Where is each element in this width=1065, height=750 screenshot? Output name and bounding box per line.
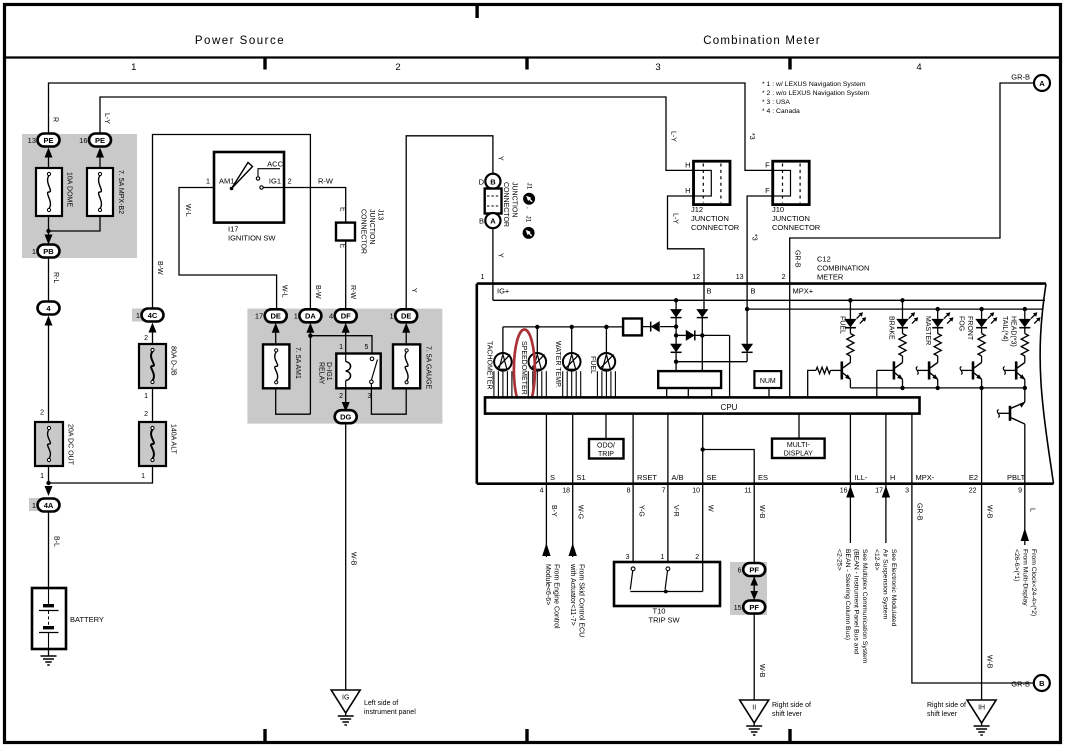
svg-text:2: 2 [695,554,699,561]
svg-text:F: F [765,186,770,195]
svg-text:shift lever: shift lever [772,711,803,718]
svg-text:GR-B: GR-B [794,250,801,268]
svg-text:L-Y: L-Y [670,131,677,142]
svg-text:* 4 : Canada: * 4 : Canada [762,108,800,115]
svg-text:12: 12 [692,274,700,281]
svg-text:9: 9 [1018,488,1022,495]
svg-text:S: S [550,473,555,482]
svg-text:TRIP SW: TRIP SW [649,616,681,625]
svg-text:From Skid Control ECU: From Skid Control ECU [578,564,585,637]
svg-text:<12-8>: <12-8> [873,549,880,571]
svg-text:DA: DA [305,312,316,321]
svg-text:4: 4 [540,488,544,495]
svg-text:Y-G: Y-G [637,505,644,517]
svg-text:SPEEDOMETER: SPEEDOMETER [520,341,527,395]
svg-text:W-B: W-B [758,664,765,678]
svg-text:II: II [752,705,756,712]
svg-text:HEAD(*3): HEAD(*3) [1010,316,1017,347]
svg-text:W-L: W-L [280,285,287,298]
svg-text:B-W: B-W [314,285,321,299]
svg-text:H: H [685,186,690,195]
svg-text:CONNECTOR: CONNECTOR [691,223,740,232]
svg-text:W-B: W-B [350,552,357,566]
svg-text:A: A [1039,79,1045,88]
svg-text:JUNCTION: JUNCTION [368,209,375,244]
svg-text:2: 2 [782,274,786,281]
svg-text:1: 1 [136,311,140,320]
svg-text:PF: PF [749,565,759,574]
svg-text:Y: Y [497,156,504,161]
svg-text:1: 1 [144,393,148,400]
svg-text:IH: IH [978,705,985,712]
svg-text:Right side of: Right side of [927,702,966,709]
svg-text:COMBINATION: COMBINATION [817,264,869,273]
svg-text:ES: ES [758,473,768,482]
svg-text:*3: *3 [748,133,755,140]
svg-text:GR-B: GR-B [1011,73,1030,82]
svg-text:DISPLAY: DISPLAY [784,451,813,458]
svg-text:FRONT: FRONT [966,316,973,341]
svg-text:<26-6>(*1): <26-6>(*1) [1013,549,1020,582]
svg-text:1: 1 [32,501,36,510]
svg-text:W-B: W-B [758,505,765,519]
svg-text:B: B [479,217,484,226]
svg-text:1: 1 [339,344,343,351]
svg-text:H: H [890,473,895,482]
svg-text:E: E [339,244,346,249]
svg-text:with Actuator<11-7>: with Actuator<11-7> [569,563,576,626]
svg-text:W: W [706,505,713,512]
svg-text:From Multi-Display: From Multi-Display [1021,549,1028,606]
svg-text:B-Y: B-Y [550,505,557,517]
svg-text:BRAKE: BRAKE [888,316,895,340]
svg-text:B: B [751,287,756,296]
svg-text:R: R [52,117,59,122]
svg-text:2: 2 [40,410,44,417]
svg-text:*3: *3 [750,234,757,241]
svg-text:ACC: ACC [267,160,283,169]
svg-text:IGNITION SW: IGNITION SW [228,234,276,243]
svg-text:TAIL(*4): TAIL(*4) [1001,316,1008,342]
svg-text:1: 1 [390,312,394,321]
svg-text:1: 1 [294,312,298,321]
svg-text:1: 1 [660,554,664,561]
svg-text:W-B: W-B [985,505,992,519]
svg-text:J13: J13 [377,209,384,220]
svg-text:3: 3 [655,62,660,73]
svg-text:PE: PE [43,136,53,145]
svg-text:C12: C12 [817,255,831,264]
svg-text:7. 5A GAUGE: 7. 5A GAUGE [425,346,432,390]
svg-text:JUNCTION: JUNCTION [511,182,518,217]
svg-text:* 2 : w/o LEXUS Navigation Sys: * 2 : w/o LEXUS Navigation System [762,90,870,97]
svg-text:FUEL: FUEL [839,316,846,334]
svg-text:R-W: R-W [318,177,334,186]
svg-text:* 1 : w/ LEXUS Navigation Syst: * 1 : w/ LEXUS Navigation System [762,81,866,88]
svg-text:B: B [707,287,712,296]
svg-text:DE: DE [270,312,280,321]
svg-text:RSET: RSET [637,473,657,482]
svg-text:Y: Y [497,253,504,258]
svg-text:Right side of: Right side of [772,702,811,709]
svg-text:See Multiplex Communication Sy: See Multiplex Communication System [861,549,868,664]
svg-text:4: 4 [916,62,921,73]
svg-text:W-G: W-G [576,505,583,519]
svg-text:JUNCTION: JUNCTION [691,214,729,223]
svg-text:MULTI-: MULTI- [787,442,810,449]
svg-text:16: 16 [79,136,87,145]
svg-text:H: H [685,161,690,170]
svg-text:SE: SE [707,473,717,482]
svg-text:IG+: IG+ [497,287,510,296]
svg-text:V-R: V-R [672,505,679,517]
svg-text:4A: 4A [44,501,54,510]
svg-text:Left side of: Left side of [364,700,398,707]
svg-text:1: 1 [32,247,36,256]
svg-text:5: 5 [365,344,369,351]
svg-text:FUEL: FUEL [589,356,596,374]
svg-text:METER: METER [817,273,844,282]
svg-text:Power Source: Power Source [195,35,285,47]
svg-text:F: F [765,161,770,170]
svg-text:PE: PE [95,136,105,145]
svg-text:1: 1 [206,177,210,186]
svg-text:MPX-: MPX- [916,473,935,482]
svg-text:AM1: AM1 [219,177,234,186]
svg-text:GR-B: GR-B [1011,680,1030,689]
svg-text:2: 2 [144,411,148,418]
svg-text:DF: DF [341,312,351,321]
svg-text:From Engine Control: From Engine Control [552,564,559,629]
svg-text:B: B [1039,679,1045,688]
svg-text:A/B: A/B [672,473,684,482]
svg-text:4: 4 [329,312,333,321]
svg-text:S1: S1 [577,473,586,482]
svg-text:CONNECTOR: CONNECTOR [502,182,509,227]
svg-text:17: 17 [255,312,263,321]
svg-text:2: 2 [339,393,343,400]
svg-text:CONNECTOR: CONNECTOR [772,223,821,232]
svg-text:(BEAN - Instrument Panel Bus a: (BEAN - Instrument Panel Bus and [852,549,859,654]
svg-text:CONNECTOR: CONNECTOR [360,209,367,254]
svg-text:JUNCTION: JUNCTION [772,214,810,223]
svg-text:DG: DG [340,413,351,422]
svg-text:RELAY: RELAY [318,362,325,385]
svg-text:J1: J1 [526,183,533,190]
svg-text:* 3 : USA: * 3 : USA [762,99,790,106]
svg-text:W-B: W-B [985,655,992,669]
svg-text:PB: PB [43,247,54,256]
svg-text:1: 1 [481,274,485,281]
svg-text:TRIP: TRIP [598,451,614,458]
svg-text:BATTERY: BATTERY [70,615,104,624]
svg-text:R-L: R-L [52,272,59,283]
svg-text:I17: I17 [228,225,238,234]
svg-text:Air Suspension System: Air Suspension System [881,549,888,620]
svg-text:T10: T10 [653,607,666,616]
svg-text:PBLT: PBLT [1007,473,1026,482]
svg-text:1: 1 [131,62,136,73]
svg-text:1: 1 [141,473,145,480]
svg-text:,: , [525,207,532,209]
svg-text:140A ALT: 140A ALT [170,424,177,455]
svg-text:A: A [490,217,496,226]
svg-text:3: 3 [626,554,630,561]
svg-text:10A DOME: 10A DOME [66,172,73,207]
svg-text:15: 15 [734,605,742,612]
svg-text:1: 1 [40,473,44,480]
svg-text:MPX+: MPX+ [793,287,814,296]
svg-text:17: 17 [875,488,883,495]
svg-text:ODO/: ODO/ [597,443,615,450]
svg-text:Y: Y [410,288,417,293]
svg-text:instrument panel: instrument panel [364,709,416,716]
svg-text:ILL-: ILL- [855,473,868,482]
svg-text:80A D-JB: 80A D-JB [170,346,177,376]
svg-text:Combination Meter: Combination Meter [703,35,821,47]
svg-text:D-IG1: D-IG1 [325,362,332,381]
svg-text:TACHOMETER: TACHOMETER [485,341,492,389]
svg-text:CPU: CPU [721,403,738,412]
svg-text:22: 22 [969,488,977,495]
svg-text:B-W: B-W [156,261,163,275]
svg-text:E: E [339,207,346,212]
svg-text:7: 7 [662,488,666,495]
svg-text:B-L: B-L [53,536,60,547]
svg-text:J12: J12 [691,205,703,214]
svg-text:MASTER: MASTER [924,316,931,345]
svg-text:shift lever: shift lever [927,711,958,718]
svg-text:NUM: NUM [760,378,776,385]
svg-text:16: 16 [840,488,848,495]
svg-text:10: 10 [692,488,700,495]
svg-text:L-Y: L-Y [103,113,110,124]
svg-text:IG: IG [342,695,349,702]
svg-text:18: 18 [562,488,570,495]
svg-text:8: 8 [627,488,631,495]
svg-text:13: 13 [736,274,744,281]
svg-text:L-Y: L-Y [671,213,678,224]
svg-text:<2-25>: <2-25> [836,549,843,571]
svg-text:11: 11 [744,488,751,495]
svg-text:3: 3 [905,488,909,495]
svg-text:BEAN - Steering Column Bus): BEAN - Steering Column Bus) [844,549,851,640]
svg-text:6: 6 [738,567,742,574]
svg-text:20A DC OUT: 20A DC OUT [67,424,74,466]
svg-text:From Clock<24-4>(*2): From Clock<24-4>(*2) [1030,549,1037,616]
svg-text:13: 13 [28,136,36,145]
svg-text:7. 5A MPX-B2: 7. 5A MPX-B2 [117,170,124,214]
svg-text:J1: J1 [525,216,532,223]
svg-text:Module<6-6>: Module<6-6> [544,564,551,605]
svg-text:4C: 4C [148,311,158,320]
svg-text:E2: E2 [969,473,978,482]
svg-text:2: 2 [395,62,400,73]
svg-text:DE: DE [401,312,411,321]
svg-text:D: D [479,177,485,186]
svg-text:See Electronic Modulated: See Electronic Modulated [890,549,897,627]
svg-text:WATER TEMP.: WATER TEMP. [554,341,561,388]
svg-text:B: B [490,177,496,186]
svg-text:PF: PF [749,603,759,612]
svg-text:W-L: W-L [184,204,191,217]
svg-text:IG1: IG1 [269,177,281,186]
svg-text:2: 2 [288,177,292,186]
svg-text:7. 5A AM1: 7. 5A AM1 [294,347,301,379]
svg-text:GR-B: GR-B [916,503,923,521]
svg-text:FOG: FOG [958,316,965,331]
svg-text:R-W: R-W [349,285,356,299]
svg-text:J10: J10 [772,205,784,214]
svg-text:2: 2 [144,335,148,342]
svg-text:L: L [1028,508,1035,512]
